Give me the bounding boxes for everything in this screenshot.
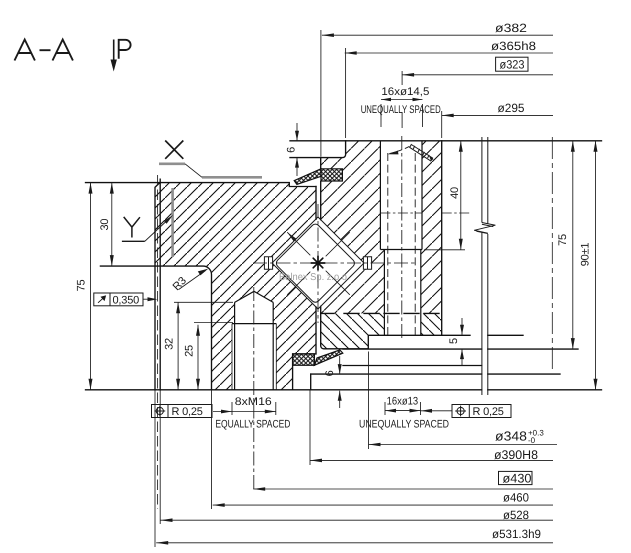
- counterbore ø14.5 walls: [380, 141, 422, 250]
- white-out: M16 threaded hole: [232, 291, 276, 390]
- split joint between outer ring halves: [321, 312, 442, 314]
- inner ring right face lower + seal groove: [293, 307, 316, 390]
- 90+-1: [595, 141, 597, 390]
- white-out: bolt hole column: [380, 141, 422, 250]
- counterbore bottom: [380, 249, 422, 251]
- 75 right: [572, 141, 574, 349]
- svg-text:8xM16: 8xM16: [235, 396, 272, 408]
- inner ring body (hatched): [155, 183, 316, 390]
- inner ring left face outer (ø531.3) with top chamfer: [155, 183, 160, 390]
- svg-text:75: 75: [76, 280, 88, 292]
- svg-text:ø365h8: ø365h8: [491, 39, 536, 53]
- support line y=365.5: [343, 365, 482, 367]
- svg-text:5: 5: [448, 338, 460, 344]
- svg-text:ø382: ø382: [495, 21, 527, 35]
- inner ring left face step (ø528): [159, 179, 161, 390]
- 16xo13 dim: [385, 410, 452, 412]
- support line y=335.3 right of ring: [442, 334, 523, 336]
- hidden hole lines (dashed): [388, 153, 415, 335]
- drill cone: [235, 291, 274, 302]
- outer ring lower clamp half body (hatched opposite): [321, 313, 442, 348]
- svg-text:16xø14,5: 16xø14,5: [381, 86, 429, 98]
- lower ø13 walls: [384, 250, 420, 336]
- outer ring top surface + extension right: [290, 140, 602, 142]
- core walls: [235, 302, 274, 389]
- svg-text:40: 40: [449, 187, 461, 199]
- inner ring step surface + R3 fillet + lower left face (ø460): [100, 266, 211, 390]
- raceway square: [272, 217, 364, 309]
- svg-text:-0: -0: [528, 436, 536, 445]
- svg-text:ø348: ø348: [495, 429, 527, 444]
- svg-text:ø430: ø430: [503, 472, 532, 486]
- inner ring top surface: [86, 183, 317, 187]
- white-out: roller diamond: [272, 217, 364, 309]
- outer ring top recess: [321, 141, 346, 169]
- 6 top dim: [296, 123, 298, 176]
- diameter dim lines: [369, 444, 558, 446]
- outer ring left face between seal groove and raceway: [320, 181, 322, 219]
- roller contour (rounded square): [276, 224, 354, 302]
- svg-text:25: 25: [184, 345, 196, 357]
- 16xo14,5 dim: [381, 99, 423, 101]
- extension verticals: [154, 390, 156, 547]
- svg-text:30: 30: [99, 219, 111, 231]
- axis centerline right: [551, 137, 553, 370]
- 5 dim arrows outside: [461, 318, 463, 366]
- outer ring upper half body (hatched): [321, 141, 442, 314]
- chamfer callout bar at hole top: [410, 145, 433, 162]
- svg-text:ø531.3h9: ø531.3h9: [492, 527, 541, 541]
- svg-text:ø323: ø323: [500, 58, 525, 72]
- inner ring right face upper (to raceway): [315, 187, 317, 220]
- support line y=374: [311, 373, 560, 375]
- runout 0,350 feature frame: [94, 293, 143, 306]
- 8xM16 dim: [213, 411, 276, 413]
- svg-text:EQUALLY SPACED: EQUALLY SPACED: [215, 419, 290, 431]
- thread outer lines: [232, 324, 276, 390]
- dashed curved leader to chamfer: [390, 146, 411, 154]
- recess floor extension left: [290, 157, 321, 159]
- svg-text:32: 32: [164, 338, 176, 350]
- svg-text:R 0,25: R 0,25: [473, 406, 504, 418]
- 6 bottom dim: [339, 356, 341, 408]
- 40 dim: [460, 141, 462, 250]
- thread end line: [232, 323, 276, 325]
- center asterisk: [311, 256, 325, 270]
- outer ring left face below raceway with corner arc: [321, 306, 442, 349]
- outer ring right face: [441, 141, 443, 335]
- vertex groove rects: [264, 257, 272, 269]
- white-out: channels between rings: [316, 185, 321, 220]
- svg-text:6: 6: [324, 370, 336, 376]
- bottom mounting plane: [86, 389, 602, 391]
- svg-text:ø460: ø460: [503, 491, 529, 505]
- bottom seal: [293, 350, 343, 365]
- svg-text:16xø13: 16xø13: [387, 396, 419, 408]
- dim lines: [322, 34, 553, 36]
- cross arms: [287, 232, 350, 295]
- svg-text:75: 75: [557, 234, 569, 246]
- svg-text:ø390H8: ø390H8: [494, 448, 538, 462]
- ext lines: [320, 30, 322, 157]
- svg-text:0,350: 0,350: [113, 295, 140, 307]
- position tolerance frames: [152, 405, 512, 418]
- svg-text:UNEQUALLY SPACED: UNEQUALLY SPACED: [359, 419, 449, 431]
- svg-text:UNEQUALLY SPACED: UNEQUALLY SPACED: [361, 104, 441, 116]
- top seal: [294, 169, 342, 185]
- svg-text:ø295: ø295: [498, 101, 525, 115]
- svg-text:Balnex Sp. z.o.o: Balnex Sp. z.o.o: [279, 272, 347, 283]
- svg-text:6: 6: [286, 147, 298, 153]
- svg-text:ø528: ø528: [503, 508, 529, 522]
- support surface at y=349.1: [343, 348, 578, 350]
- svg-text:R 0,25: R 0,25: [172, 406, 203, 418]
- svg-text:90±1: 90±1: [580, 243, 592, 267]
- white-out: vertex grooves: [264, 257, 272, 269]
- inner-ring bottom step notch: [310, 374, 312, 390]
- centerlines: [253, 262, 417, 264]
